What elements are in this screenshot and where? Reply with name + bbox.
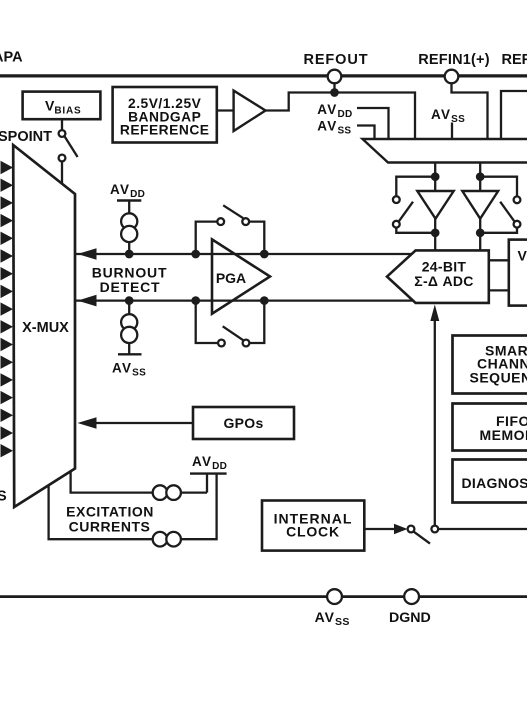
svg-text:X-MUX: X-MUX <box>22 320 69 336</box>
svg-text:REFIN1(−): REFIN1(−) <box>502 52 527 68</box>
pin AVSS circle <box>327 589 342 604</box>
node junction dot under REFOUT <box>331 89 337 95</box>
block INTERNAL CLOCK box <box>262 501 364 551</box>
svg-text:CLOCK: CLOCK <box>286 524 340 540</box>
X-MUX input channel arrow 4 <box>1 214 14 227</box>
wire AVSS to ref mux <box>357 126 375 140</box>
arrowhead signal rail top into X-MUX <box>78 248 97 260</box>
switch PGA bypass bottom <box>196 301 218 343</box>
block reference mux trapezoid (cropped right) <box>363 139 527 163</box>
X-MUX input channel arrow 14 <box>1 391 14 404</box>
wire to AVDD bar <box>206 474 208 493</box>
node junction dot burnout top rail <box>126 251 132 257</box>
svg-text:AVDD: AVDD <box>192 454 227 472</box>
wire clock output with arrow <box>364 528 396 530</box>
power AVDD bar <box>117 199 141 201</box>
power AVDD bar (excitation) <box>190 472 227 474</box>
wire AVDD to ref mux <box>357 108 389 140</box>
node junction dots PGA rails <box>193 251 199 257</box>
node junction dot buf1 top <box>432 174 438 180</box>
arrowhead signal rail bottom into X-MUX <box>78 295 97 307</box>
current source burnout top <box>128 201 130 214</box>
switch buf1 bypass <box>393 196 400 203</box>
block VBIAS box <box>23 92 101 120</box>
arrowhead MCLK into ADC <box>430 305 439 322</box>
block bandgap reference box <box>113 87 217 143</box>
wire excitation current top <box>71 472 207 493</box>
node junction dot buf1 bottom <box>432 230 438 236</box>
svg-text:EXCITATION: EXCITATION <box>66 504 154 520</box>
switch PGA bypass top <box>196 222 218 254</box>
svg-text:AVSS: AVSS <box>317 119 351 137</box>
svg-text:MEMORY: MEMORY <box>480 427 527 443</box>
svg-text:V: V <box>518 248 527 264</box>
X-MUX input channel arrow 6 <box>1 249 14 262</box>
wire REFIN1(+) to ref mux <box>452 83 488 139</box>
svg-text:DIAGNOSTICS: DIAGNOSTICS <box>462 475 527 491</box>
node junction dot buf2 top <box>477 174 483 180</box>
op-amp reference buffer 1 (down triangle) <box>417 191 453 219</box>
svg-text:AVDD: AVDD <box>110 182 145 200</box>
wire bottom supply rail <box>0 595 527 598</box>
X-MUX input channel arrow 5 <box>1 232 14 245</box>
arrowhead GPOs wire into X-MUX <box>78 417 97 429</box>
wire ref mux to buffer 2 <box>479 163 481 192</box>
svg-text:S: S <box>0 489 7 505</box>
block V box (cropped right) <box>509 240 527 306</box>
svg-text:PGA: PGA <box>216 270 246 286</box>
wire excitation current bottom <box>49 474 217 540</box>
switch VBIAS (open) <box>59 130 66 137</box>
wire ref mux to buffer 1 <box>434 163 436 192</box>
wire ADC to V box stubs <box>489 259 509 261</box>
wire top analog pin rail <box>0 74 527 77</box>
block GPOs box <box>193 407 294 439</box>
X-MUX input channel arrow 15 <box>1 409 14 422</box>
block DIAGNOSTICS box (cropped) <box>453 460 527 503</box>
svg-text:SEQUENCER: SEQUENCER <box>470 369 527 385</box>
wire buf1 bypass top <box>396 177 435 197</box>
X-MUX input channel arrow 11 <box>1 338 14 351</box>
svg-text:Σ-Δ ADC: Σ-Δ ADC <box>414 273 473 289</box>
pin REFOUT circle <box>328 70 342 84</box>
ground AVSS bar <box>118 353 142 355</box>
switch clock <box>408 526 415 533</box>
block SMART CHANNEL SEQUENCER box (cropped) <box>453 336 527 394</box>
X-MUX input channel arrow 7 <box>1 267 14 280</box>
X-MUX input channel arrow 13 <box>1 373 14 386</box>
svg-text:GPOs: GPOs <box>223 415 263 431</box>
X-MUX input arrowheads <box>1 161 14 458</box>
wire buf1 to ADC <box>434 219 436 251</box>
current source excitation bottom <box>153 532 168 547</box>
X-MUX input channel arrow 17 <box>1 444 14 457</box>
block ADC pentagon <box>387 250 489 303</box>
block X-MUX polygon <box>13 145 75 507</box>
X-MUX input channel arrow 12 <box>1 356 14 369</box>
wire MCLK vertical to ADC <box>434 320 436 526</box>
svg-text:DETECT: DETECT <box>100 279 161 295</box>
X-MUX input channel arrow 8 <box>1 285 14 298</box>
pin REFIN1(+) circle <box>445 70 459 84</box>
svg-text:VBIAS: VBIAS <box>45 98 81 117</box>
wire REFIN1(-) to ref mux <box>501 91 527 140</box>
svg-text:REFOUT: REFOUT <box>303 52 368 68</box>
op-amp reference buffer triangle <box>234 91 266 131</box>
X-MUX input channel arrow 2 <box>1 179 14 192</box>
block FIFO MEMORY box (cropped) <box>453 404 527 451</box>
svg-text:AVSS: AVSS <box>315 609 350 628</box>
svg-text:REFIN1(+): REFIN1(+) <box>418 52 490 68</box>
node junction dot buf2 bottom <box>477 230 483 236</box>
wire buf2 bypass top <box>480 177 517 197</box>
wire buffer output to internal ref rail <box>266 93 416 140</box>
X-MUX input channel arrow 3 <box>1 196 14 209</box>
svg-text:AVDD: AVDD <box>317 102 352 120</box>
svg-text:AVSS: AVSS <box>431 107 465 125</box>
wire signal rail top (mux to ADC) <box>76 253 413 255</box>
wire VBIAS stem <box>61 119 63 130</box>
svg-text:DGND: DGND <box>389 610 431 626</box>
X-MUX input channel arrow 9 <box>1 302 14 315</box>
current source excitation top <box>153 485 168 500</box>
X-MUX input channel arrow 10 <box>1 320 14 333</box>
pin DGND circle <box>404 589 419 604</box>
wire signal rail bottom (mux to ADC) <box>76 299 414 301</box>
wire buf2 to ADC <box>479 219 481 251</box>
svg-text:APA: APA <box>0 49 23 65</box>
wire GPOs to mux <box>96 422 193 424</box>
wire AVSS2 stub <box>451 123 453 140</box>
wire clock to right edge <box>438 528 527 530</box>
svg-text:SPOINT: SPOINT <box>0 129 52 145</box>
svg-text:AVSS: AVSS <box>112 361 146 379</box>
svg-text:CURRENTS: CURRENTS <box>69 519 151 535</box>
arrowhead clock wire <box>394 524 408 534</box>
switch buf2 bypass <box>514 196 521 203</box>
wire bandgap to buffer <box>217 109 234 111</box>
op-amp reference buffer 2 (down triangle) <box>462 191 498 219</box>
wire REFOUT stem <box>333 83 335 92</box>
svg-text:REFERENCE: REFERENCE <box>120 123 210 138</box>
X-MUX input channel arrow 1 <box>1 161 14 174</box>
X-MUX input channel arrow 16 <box>1 426 14 439</box>
op-amp PGA triangle <box>212 239 270 313</box>
current source burnout bottom <box>126 297 132 303</box>
